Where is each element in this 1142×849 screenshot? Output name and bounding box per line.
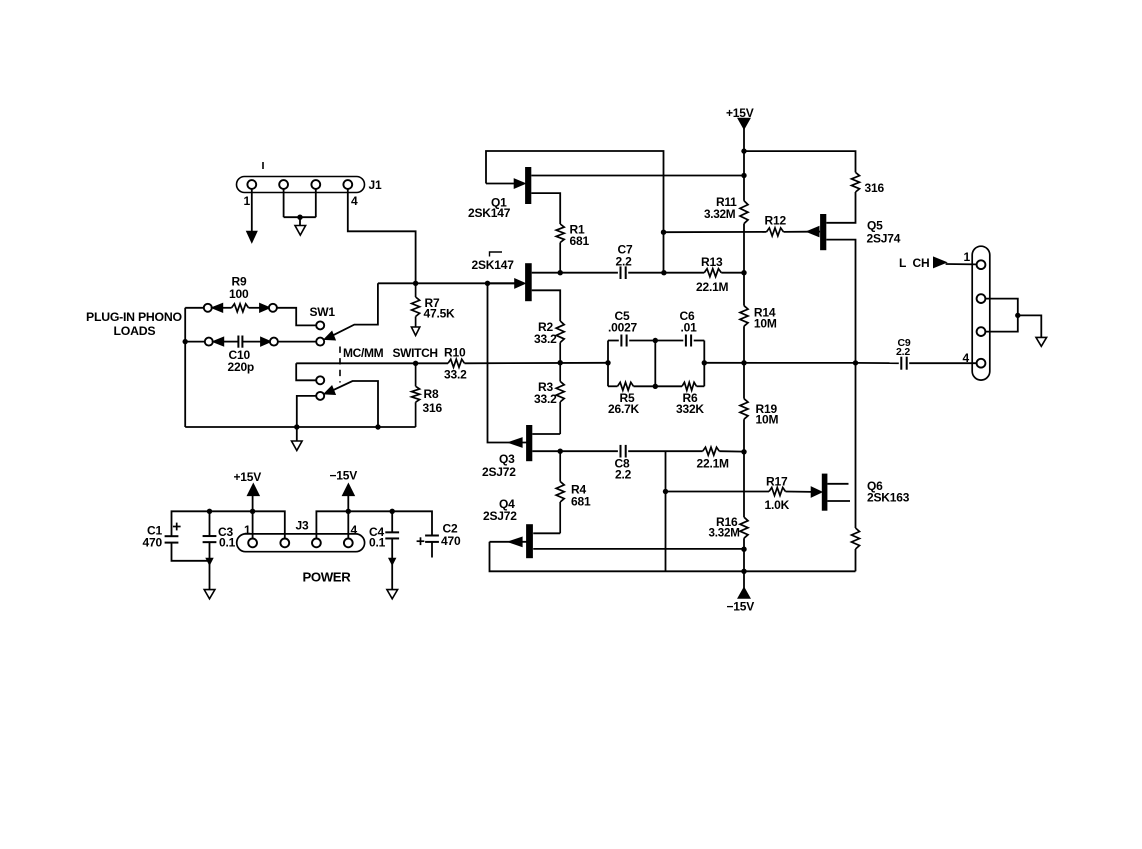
- capacitor C5: [621, 335, 626, 347]
- label Q4: [499, 497, 515, 511]
- value R16 3.32M: [709, 527, 740, 540]
- wire ground stub: [296, 427, 298, 441]
- wire left bus vertical: [184, 308, 186, 427]
- transistor Q2 channel bar: [525, 263, 532, 301]
- connector J3 body: [237, 534, 365, 552]
- wire Q3 source: [532, 433, 560, 435]
- arrow +15V power: [248, 484, 259, 495]
- transistor Q5 channel bar: [820, 214, 826, 250]
- transistor Q3 channel bar: [526, 425, 532, 461]
- arrow Q6 gate (points right): [812, 487, 822, 496]
- svg-text:470: 470: [441, 534, 461, 548]
- svg-text:10M: 10M: [754, 317, 777, 331]
- label R4: [571, 483, 586, 497]
- J3 pin 1 circle: [248, 539, 257, 548]
- svg-text:681: 681: [570, 234, 590, 248]
- label Q6 type 2SK163: [867, 491, 910, 505]
- capacitor C7: [621, 266, 626, 279]
- label C2: [443, 522, 458, 536]
- wire C10 lead right: [243, 341, 261, 343]
- svg-text:1.0K: 1.0K: [765, 498, 790, 512]
- node bus C3: [207, 509, 212, 514]
- svg-text:R8: R8: [424, 387, 439, 401]
- wire SW1 b2 to bottom rail: [297, 396, 316, 427]
- connector output body: [972, 246, 990, 380]
- node ladder bottom mid: [653, 384, 658, 389]
- node R1 bottom: [558, 270, 563, 275]
- label Q3 type 2SJ72: [482, 465, 516, 479]
- node feedback to R12: [661, 230, 666, 235]
- svg-text:R10: R10: [444, 346, 466, 360]
- transistor Q6 channel bar: [822, 474, 828, 511]
- value C5 .0027: [608, 320, 638, 334]
- wire ladder bottom right: [697, 385, 705, 387]
- wire ladder mid vertical: [654, 341, 656, 387]
- svg-text:Q5: Q5: [867, 219, 883, 233]
- value 22.1M lower: [697, 456, 730, 470]
- resistor R5: [618, 382, 634, 390]
- wire main node to rail: [704, 362, 855, 364]
- value R3 33.2: [534, 392, 557, 406]
- label J1: [369, 178, 382, 192]
- svg-text:Q3: Q3: [499, 452, 515, 466]
- svg-text:R17: R17: [766, 475, 788, 489]
- svg-text:100: 100: [229, 287, 249, 301]
- node source divider: [558, 360, 563, 365]
- label R10: [444, 346, 466, 360]
- J1 pin 2 circle: [279, 180, 288, 189]
- label C5: [615, 309, 630, 323]
- label C6: [680, 309, 695, 323]
- svg-text:LOADS: LOADS: [114, 324, 156, 338]
- svg-text:2.2: 2.2: [896, 346, 910, 358]
- svg-text:+15V: +15V: [234, 470, 262, 484]
- label Q3: [499, 452, 515, 466]
- wire to ground stub: [299, 217, 301, 225]
- label SW1: [310, 305, 336, 319]
- value R17 1.0K: [765, 498, 790, 512]
- ground C3: [204, 590, 215, 599]
- label R2: [538, 320, 553, 334]
- label C1: [147, 524, 162, 538]
- label R16: [716, 515, 738, 529]
- arrow J1 pin1 (to cartridge): [247, 232, 257, 243]
- open arrow below R7: [411, 327, 419, 336]
- label J3 pin 4: [351, 523, 358, 537]
- capacitor C10: [238, 336, 242, 348]
- label Q5 type 2SJ74: [867, 232, 901, 246]
- arrow C10 right jumper: [261, 338, 270, 346]
- SW1 arm arrowhead upper: [325, 332, 335, 340]
- arrow Q5 gate (points left): [808, 227, 821, 236]
- label PLUG-IN PHONO: [86, 310, 182, 324]
- svg-text:22.1M: 22.1M: [696, 280, 729, 294]
- wire R9 lead: [222, 307, 231, 309]
- value R6 332K: [676, 402, 704, 416]
- label R8: [424, 387, 439, 401]
- capacitor C4 plates: [385, 532, 399, 538]
- arrow Q3 gate: [509, 438, 522, 447]
- arrow -15V power: [343, 484, 354, 495]
- label R19: [756, 402, 778, 416]
- capacitor C9: [901, 357, 906, 370]
- wire Q2 gate to Q3 gate: [488, 283, 527, 442]
- svg-text:33.2: 33.2: [534, 332, 557, 346]
- wire Q1 gate loop: [486, 151, 664, 273]
- label R1: [570, 223, 585, 237]
- resistor R9: [232, 304, 249, 312]
- resistor R17: [769, 488, 786, 496]
- SW1 contact a1 (MC): [316, 321, 324, 329]
- wire Q5 drain to 316 resistor: [826, 192, 855, 223]
- value C7 2.2: [616, 255, 633, 269]
- label C9: [898, 337, 911, 349]
- value C1 470: [143, 536, 163, 550]
- wire R12 line: [664, 231, 809, 234]
- label J1 pin 4: [351, 194, 358, 208]
- J3 pin 3 circle: [312, 539, 321, 548]
- wire ladder top right: [694, 340, 705, 342]
- label +15V power: [234, 470, 262, 484]
- wire C1 bottom: [172, 543, 210, 561]
- junction C1-C3: [207, 559, 213, 565]
- wire bottom rail: [185, 426, 415, 428]
- resistor R11: [740, 201, 748, 224]
- wire MC node horizontal: [378, 282, 515, 284]
- svg-text:R13: R13: [701, 255, 723, 269]
- resistor 316 top: [852, 172, 860, 192]
- J1 pin 4 circle: [343, 180, 352, 189]
- SW1 contact a2 (MM): [316, 338, 324, 346]
- node Q4 drain at rail: [741, 547, 746, 552]
- node bus -15V: [346, 509, 351, 514]
- capacitor C6: [686, 335, 691, 347]
- svg-text:3.32M: 3.32M: [704, 207, 736, 221]
- output pin 4 circle: [977, 359, 986, 368]
- label -15V: [727, 600, 755, 614]
- wire Q1 source: [531, 193, 560, 224]
- wire R9 to SW1: [277, 308, 316, 326]
- wire C4 vertical: [391, 511, 393, 589]
- value C3 0.1: [219, 536, 236, 550]
- svg-text:681: 681: [571, 495, 591, 509]
- node output ground join: [1015, 313, 1020, 318]
- wire C10 row left: [185, 341, 205, 343]
- value C2 470: [441, 534, 461, 548]
- svg-text:SWITCH: SWITCH: [393, 346, 438, 360]
- svg-text:470: 470: [143, 536, 163, 550]
- svg-text:−15V: −15V: [330, 469, 358, 483]
- wire power bus right: [316, 511, 432, 538]
- wire L CH to pin 1: [946, 263, 977, 265]
- wire R4 to Q4 source: [533, 532, 560, 534]
- label C4: [369, 525, 384, 539]
- wire Q4 drain to -15V rail: [533, 548, 744, 550]
- wire Q2 drain / C7 line: [532, 272, 705, 274]
- arrow R9 left jumper: [212, 304, 222, 312]
- svg-text:CH: CH: [913, 256, 930, 270]
- wire J1 pin2 down: [283, 189, 285, 217]
- svg-text:L: L: [899, 256, 906, 270]
- resistor R2: [556, 321, 564, 363]
- J3 pin 2 circle: [280, 539, 289, 548]
- wire C3 vertical: [209, 511, 211, 589]
- label J3: [296, 519, 309, 533]
- resistor R1: [556, 224, 564, 273]
- junction mark C4 lead: [389, 559, 395, 565]
- node main at rail: [741, 360, 746, 365]
- resistor R8: [412, 363, 420, 427]
- wire main node to SW1 b1: [296, 363, 316, 380]
- node C7 right: [661, 270, 666, 275]
- svg-text:332K: 332K: [676, 402, 704, 416]
- capacitor C1 plates: [165, 536, 179, 542]
- value C9 2.2: [896, 346, 910, 358]
- label R17: [766, 475, 788, 489]
- label Q5: [867, 219, 883, 233]
- value R11 3.32M: [704, 207, 736, 221]
- value R19 10M: [756, 413, 779, 427]
- wire output pin 2: [986, 299, 1018, 316]
- junction J1 pins 2-3: [297, 215, 302, 220]
- node rail to Q5 drain branch: [741, 148, 746, 153]
- node 22.1M at rail: [741, 449, 746, 454]
- label Q6: [867, 479, 883, 493]
- tick mark above J1: [262, 162, 264, 169]
- node R8 top: [413, 361, 418, 366]
- svg-text:0.1: 0.1: [369, 536, 386, 550]
- node bus +15V: [250, 509, 255, 514]
- ground below rail: [292, 441, 303, 451]
- arrow +15V supply: [738, 119, 749, 129]
- label L CH: [899, 256, 929, 270]
- wire Q6 drain stub: [827, 483, 848, 485]
- ground C4: [387, 590, 398, 599]
- label R3: [538, 380, 553, 394]
- label Q1 type 2SK147: [468, 206, 511, 220]
- value R8 316: [423, 401, 443, 415]
- resistor R7: [412, 283, 420, 327]
- label J3 pin 1: [244, 523, 251, 537]
- svg-text:.01: .01: [681, 320, 698, 334]
- svg-text:1: 1: [964, 250, 971, 264]
- wire ladder top left: [608, 340, 619, 342]
- label POWER: [303, 570, 352, 585]
- SW1 contact b1: [316, 376, 324, 384]
- wire 22.1M to rail: [719, 450, 744, 452]
- ground output: [1036, 337, 1047, 346]
- svg-text:22.1M: 22.1M: [697, 456, 730, 470]
- svg-text:2SK147: 2SK147: [468, 206, 511, 220]
- svg-text:3.32M: 3.32M: [709, 527, 740, 540]
- wire source resistor to bottom line: [855, 549, 857, 571]
- wire ladder bottom left: [608, 385, 618, 387]
- node MC at R7 top: [413, 281, 418, 286]
- wire C9 line: [856, 362, 977, 364]
- wire joining J1 pins 2-3: [284, 216, 316, 218]
- wire R13 to rail: [721, 272, 744, 274]
- node rail bottom line: [741, 569, 746, 574]
- wire Q1 drain: [531, 175, 744, 177]
- capacitor C3 plates: [203, 536, 217, 542]
- wire ladder top mid: [629, 340, 683, 342]
- node MC at Q3 gate branch: [485, 281, 490, 286]
- terminal circle C10 left: [205, 338, 213, 346]
- arrow C10 left jumper: [213, 338, 223, 346]
- label output pin 4: [963, 351, 970, 365]
- wire main node line: [296, 362, 608, 365]
- junction bottom rail ground: [294, 424, 299, 429]
- label LOADS: [114, 324, 156, 338]
- value C10 220p: [228, 360, 255, 374]
- wire output node down: [855, 363, 857, 528]
- svg-text:PLUG-IN PHONO: PLUG-IN PHONO: [86, 310, 182, 324]
- resistor R14: [740, 306, 748, 327]
- arrow Q1 gate: [486, 179, 525, 188]
- resistor R6: [682, 382, 697, 390]
- svg-text:2SK147: 2SK147: [472, 258, 515, 272]
- SW1 contact b2: [316, 392, 324, 400]
- svg-text:47.5K: 47.5K: [424, 307, 456, 321]
- plus sign C1: [173, 523, 181, 531]
- label R6: [683, 391, 698, 405]
- svg-text:2SK163: 2SK163: [867, 491, 910, 505]
- wire output pin 3: [986, 315, 1018, 331]
- wire J1 pin1 down: [251, 189, 253, 233]
- SW1 link dashed: [339, 347, 341, 383]
- label C7: [618, 243, 633, 257]
- wire -15V to J3 pin4: [347, 495, 349, 538]
- bracket mark above 2SK147: [490, 252, 503, 257]
- node R13 at rail: [741, 270, 746, 275]
- label R12: [765, 214, 787, 228]
- label +15V: [726, 106, 754, 120]
- label C3: [218, 525, 233, 539]
- svg-text:4: 4: [351, 194, 358, 208]
- arrow -15V supply: [738, 588, 749, 598]
- label -15V power: [330, 469, 358, 483]
- wire C2 stub: [431, 542, 433, 558]
- svg-text:2.2: 2.2: [615, 468, 632, 482]
- wire C10 to SW1: [278, 341, 316, 343]
- SW1 arm arrowhead lower: [325, 386, 335, 394]
- value R10 33.2: [444, 368, 467, 382]
- ground under J1: [295, 226, 306, 236]
- transistor Q1 channel bar: [525, 167, 531, 204]
- wire to output ground: [1018, 315, 1042, 337]
- terminal circle R9 right: [269, 304, 277, 312]
- arrow R9 right jumper: [260, 304, 269, 312]
- arrow Q2 gate: [488, 279, 525, 288]
- value 316 top: [865, 181, 885, 195]
- node ladder left: [605, 360, 610, 365]
- node bus C4: [390, 509, 395, 514]
- wire Q2 source: [532, 290, 561, 321]
- svg-text:10M: 10M: [756, 413, 779, 427]
- value R9 100: [229, 287, 249, 301]
- value R14 10M: [754, 317, 777, 331]
- value C6 .01: [681, 320, 698, 334]
- value R4 681: [571, 495, 591, 509]
- wire 316 to +15V rail: [744, 151, 856, 172]
- svg-text:33.2: 33.2: [534, 392, 557, 406]
- plus sign C2: [417, 537, 425, 545]
- node R17 line: [663, 489, 668, 494]
- value R7 47.5K: [424, 307, 456, 321]
- connector J1 body: [237, 177, 365, 193]
- wire R9 lead right: [249, 307, 260, 309]
- label R9: [232, 275, 247, 289]
- value C4 0.1: [369, 536, 386, 550]
- label Q2 type 2SK147: [472, 258, 515, 272]
- wire R17 line: [666, 491, 813, 493]
- wire +15V to J3 pin1: [252, 495, 254, 538]
- resistor R12: [767, 228, 784, 236]
- svg-text:2SJ72: 2SJ72: [482, 465, 516, 479]
- SW1 arm upper: [329, 283, 378, 337]
- node Q1 drain at +15V rail: [741, 173, 746, 178]
- J3 pin 4 circle: [344, 539, 353, 548]
- svg-text:4: 4: [351, 523, 358, 537]
- node output at C9: [853, 360, 858, 365]
- svg-text:1: 1: [244, 523, 251, 537]
- wire +15V rail: [743, 129, 745, 589]
- svg-text:MC/MM: MC/MM: [343, 346, 384, 360]
- wire Q6 source stub: [827, 500, 850, 502]
- wire Q5 source down: [826, 240, 855, 363]
- transistor Q4 channel bar: [526, 524, 533, 558]
- svg-text:26.7K: 26.7K: [608, 402, 640, 416]
- wire ladder right vertical: [703, 341, 705, 387]
- label Q4 type 2SJ72: [483, 509, 517, 523]
- wire C10 lead: [223, 341, 238, 343]
- label C10: [229, 348, 251, 362]
- terminal circle C10 right: [270, 338, 278, 346]
- wire R9 row left: [185, 307, 204, 309]
- wire J1 pin4 to MC node: [348, 189, 416, 283]
- resistor R10: [448, 359, 465, 367]
- value R2 33.2: [534, 332, 557, 346]
- output pin 2 circle: [977, 294, 986, 303]
- node Q3 drain R4: [558, 449, 563, 454]
- label J1 pin 1: [244, 194, 251, 208]
- resistor R19: [740, 399, 748, 420]
- svg-text:316: 316: [423, 401, 443, 415]
- label C8: [615, 457, 630, 471]
- svg-text:POWER: POWER: [303, 570, 352, 585]
- capacitor C2 plates: [425, 536, 439, 542]
- label MC/MM SWITCH: [343, 346, 438, 360]
- svg-text:1: 1: [244, 194, 251, 208]
- wire ladder left vertical: [607, 341, 609, 387]
- svg-text:SW1: SW1: [310, 305, 336, 319]
- label R7: [425, 296, 440, 310]
- arrow Q4 gate: [490, 538, 527, 547]
- SW1 arm lower: [329, 381, 379, 427]
- svg-text:2SJ74: 2SJ74: [867, 232, 901, 246]
- label R13: [701, 255, 723, 269]
- node C10 row on left bus: [183, 339, 188, 344]
- svg-text:316: 316: [865, 181, 885, 195]
- resistor R4: [556, 451, 564, 533]
- J1 pin 3 circle: [311, 180, 320, 189]
- value R1 681: [570, 234, 590, 248]
- label R14: [754, 306, 776, 320]
- J1 pin 1 circle: [247, 180, 256, 189]
- resistor Q6 source (unlabeled): [852, 528, 860, 549]
- value R13 22.1M: [696, 280, 729, 294]
- node ladder top mid: [653, 338, 658, 343]
